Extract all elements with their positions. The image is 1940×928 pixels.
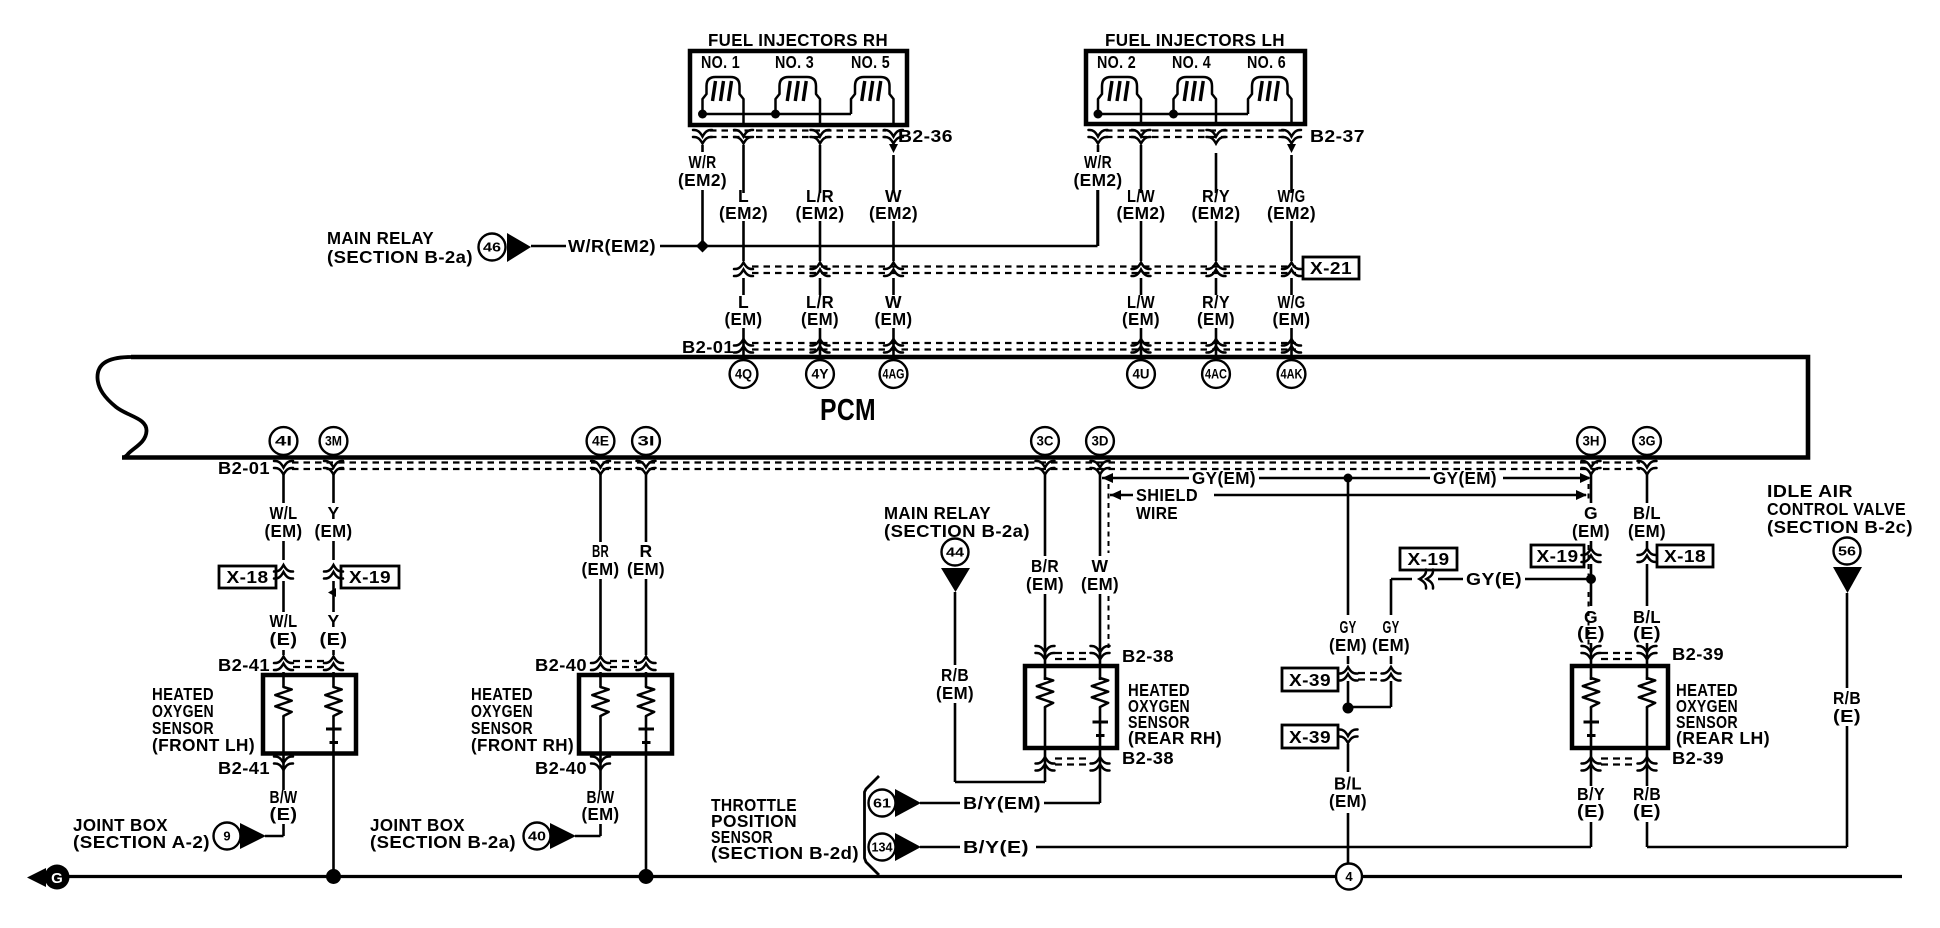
ground bus wire right [1362,875,1902,878]
connector B2-37 pin 1 [1089,130,1108,144]
sensor resistor rear RH [1092,678,1108,707]
PCM pin 3D [1086,427,1114,455]
connector X-21 pin W [884,263,903,277]
wire W/G (EM2) [1290,155,1293,193]
connector B2-38 top pin B/R [1036,646,1055,660]
injector coil NO.2 [1098,77,1141,124]
PCM pin 4U [1127,360,1155,388]
connector X-39 upper pin GY right [1382,667,1401,681]
svg-text:IDLE AIR: IDLE AIR [1767,481,1853,501]
ground symbol G [45,865,70,890]
svg-text:(REAR RH): (REAR RH) [1128,728,1222,748]
svg-text:B2-36: B2-36 [898,126,953,146]
connector B2-37 pin 2 [1132,130,1151,144]
connector X-19 on G wire [1582,549,1601,563]
wire into sensor box left [282,672,285,687]
injector coil NO.3 [776,77,821,125]
svg-text:B/L: B/L [1633,503,1661,523]
svg-text:B2-40: B2-40 [535,758,587,778]
wire R/B (E) [1646,748,1649,786]
connector B2-37 arrow tip [1287,144,1296,153]
connector B2-01 top pin 4AK [1282,339,1301,353]
svg-text:GY(EM): GY(EM) [1192,468,1256,488]
wire R/Y (EM2) [1215,153,1218,193]
connector B2-41 top dashed joint [293,660,325,662]
connector B2-41 top pin W/L [274,657,293,671]
wire GY(E) link [1391,578,1412,581]
heater resistor rear RH [1037,678,1053,707]
connector B2-39 bottom pin B/Y [1582,757,1601,771]
sensor resistor front RH [638,687,654,716]
sensor resistor rear LH [1583,678,1599,707]
heater resistor front LH [275,687,291,716]
PCM pin 3M [320,427,348,455]
wire B/R (EM) [1044,473,1047,556]
svg-text:G: G [51,870,63,887]
wire from arrow 9 to B/W [265,835,284,838]
connector B2-36 pin 1 [693,130,712,144]
connector B2-01 bottom pin at x=283.5 [274,461,293,475]
connector B2-01 bottom pin at x=333.5 [324,461,343,475]
svg-text:X-18: X-18 [1664,546,1706,566]
svg-text:(EM): (EM) [1572,521,1610,541]
connector B2-38 top dashed joint [1055,652,1090,654]
svg-text:NO. 6: NO. 6 [1247,52,1286,72]
connector B2-01 bottom pin at x=1647 [1638,461,1657,475]
wire through rear LH box bottom right [1646,707,1649,748]
wire L/R (EM2) [819,145,822,193]
wire BR (EM) [599,473,602,542]
PCM pin 3H [1577,427,1605,455]
PCM pin 4AC [1202,360,1230,388]
svg-text:(E): (E) [1633,623,1661,643]
connector B2-01 top pin 4Y [811,339,830,353]
svg-text:3H: 3H [1583,434,1600,449]
connector B2-01 bottom dashed joint [292,461,1640,463]
heated oxygen sensor (front LH) box [263,675,356,754]
connector B2-39 top dashed joint [1601,652,1637,654]
svg-text:B2-39: B2-39 [1672,644,1724,664]
connector X-18 label box [219,566,276,588]
sensor element bars front RH [639,728,655,731]
wire R/B(E) to valve [1647,846,1847,849]
wire into rear LH box right [1646,643,1649,680]
shield wire pointer line [1110,494,1133,497]
svg-text:(EM): (EM) [265,521,303,541]
wire B/W (E) [282,753,285,790]
LH injector common bus wire [1098,113,1248,116]
wire R/Y (EM) [1215,278,1218,295]
svg-text:W: W [1092,556,1109,576]
svg-text:W/L: W/L [270,611,298,631]
svg-text:B2-41: B2-41 [218,758,270,778]
svg-text:61: 61 [873,796,891,811]
svg-text:(EM2): (EM2) [1074,170,1123,190]
svg-text:NO. 2: NO. 2 [1097,52,1136,72]
svg-text:(SECTION B-2c): (SECTION B-2c) [1767,517,1913,537]
wire into rear LH box left [1590,643,1593,680]
connector B2-37 pin 3 [1207,130,1226,144]
connector chevron on GY(E) [1420,570,1434,589]
injector coil NO.6 [1248,77,1292,124]
connector B2-40 top pin R [637,657,656,671]
terminal circle 46 [479,234,506,261]
connector B2-01 top pin 4AG [884,339,903,353]
svg-text:X-39: X-39 [1289,727,1331,747]
PCM pin 4AG [880,360,908,388]
svg-text:4AG: 4AG [883,367,905,382]
wire through box bottom left [282,716,285,753]
terminal circle 56 [1834,538,1861,565]
svg-text:R: R [639,541,652,561]
PCM pin 4Q [730,360,758,388]
wire W (EM) [892,278,895,295]
svg-text:(EM2): (EM2) [719,203,768,223]
injector coil NO.5 [851,77,894,125]
PCM pin 4E [587,427,615,455]
svg-text:GY(EM): GY(EM) [1433,468,1497,488]
PCM pin 3G [1633,427,1661,455]
wire L/R (EM) [819,278,822,295]
svg-text:R/B: R/B [1833,688,1861,708]
connector B2-37 pin 4 [1282,130,1301,144]
svg-text:(EM): (EM) [582,804,620,824]
connector B2-36 arrow tip [889,144,898,153]
node GY branches junction [1343,703,1354,714]
svg-text:(EM): (EM) [936,683,974,703]
connector X-21 pin L/W [1132,263,1151,277]
svg-text:X-19: X-19 [349,567,391,587]
heater resistor rear LH [1639,678,1655,707]
connector B2-01 top pin 4AC [1207,339,1226,353]
connector B2-38 top pin W [1091,646,1110,660]
svg-text:(SECTION B-2d): (SECTION B-2d) [711,843,859,863]
node GY(E) at G wire [1586,574,1596,584]
svg-text:BR: BR [592,541,609,561]
arrow joint box B-2a [550,823,576,849]
svg-text:NO. 4: NO. 4 [1172,52,1211,72]
wire GY (EM) right branch [1390,579,1393,615]
svg-text:X-39: X-39 [1289,670,1331,690]
svg-text:B2-01: B2-01 [682,337,734,357]
wire L (EM2) [742,145,745,193]
connector B2-36 pin 3 [811,130,830,144]
svg-text:B/Y(E): B/Y(E) [963,837,1029,857]
wire Y (EM) [332,473,335,503]
svg-text:Y: Y [327,611,339,631]
svg-text:(FRONT LH): (FRONT LH) [152,735,255,755]
sensor resistor front LH [325,687,341,716]
wire through rear LH box bottom left [1590,707,1593,748]
svg-text:44: 44 [946,545,965,560]
svg-text:3D: 3D [1092,434,1109,449]
svg-text:4AC: 4AC [1205,367,1227,382]
wire W (EM2) [892,155,895,193]
wire Y to ground bus [332,753,335,877]
node NO.4 common junction [1169,110,1178,119]
svg-text:(E): (E) [270,804,298,824]
junction marker on Y wire [328,588,336,597]
svg-text:(EM): (EM) [875,309,913,329]
connector B2-36 pin 4 [884,130,903,144]
wire W down to B/Y(EM) [1099,748,1102,803]
svg-text:FUEL INJECTORS LH: FUEL INJECTORS LH [1105,30,1285,50]
connector X-39 upper dashed joint [1358,672,1382,674]
svg-text:4Y: 4Y [812,367,829,382]
svg-text:(REAR LH): (REAR LH) [1676,728,1770,748]
connector X-21 label box [1303,257,1359,279]
wire W/G (EM) [1290,278,1293,295]
terminal circle 61 [869,790,896,817]
connector B2-01 bottom pin at x=646 [637,461,656,475]
svg-text:FUEL INJECTORS RH: FUEL INJECTORS RH [708,30,888,50]
heated oxygen sensor (rear RH) box [1025,666,1117,748]
svg-text:134: 134 [872,840,894,855]
node R wire at ground bus [639,869,654,884]
terminal circle 40 [524,823,551,850]
throttle position sensor brace [865,776,880,875]
wire B/Y (E) [1590,748,1593,786]
wire R/B to B/R corner [955,781,1045,784]
connector X-19 label box right [1531,545,1584,567]
wire B/W (EM) [599,753,602,790]
wire into front RH box left [599,672,602,687]
svg-text:NO. 1: NO. 1 [701,52,740,72]
svg-text:NO. 3: NO. 3 [775,52,814,72]
wire Y (E) [332,581,335,612]
svg-text:(SECTION A-2): (SECTION A-2) [73,832,210,852]
svg-text:(E): (E) [1833,706,1861,726]
wire GY(EM) link [1102,477,1189,480]
wire GY (EM) left branch [1347,478,1350,615]
connector B2-41 top pin Y [324,657,343,671]
shield dashed line at 3H [1588,484,1590,502]
connector B2-38 bottom pin W [1091,757,1110,771]
wire through front RH box bottom right [645,716,648,753]
arrow 61 [895,789,921,817]
wire B/L (E) [1646,564,1649,606]
connector B2-37 dashed joint [1106,129,1284,131]
svg-text:3C: 3C [1037,434,1054,449]
connector X-21 dashed joint [752,265,1296,267]
arrow 134 [895,833,921,861]
svg-text:GY: GY [1340,617,1357,637]
svg-text:46: 46 [483,240,501,255]
connector B2-36 pin 2 [734,130,753,144]
svg-text:(E): (E) [1577,801,1605,821]
wire into rear RH box left [1044,650,1047,680]
connector B2-41 bottom pin [274,756,293,770]
svg-text:(E): (E) [1577,623,1605,643]
svg-text:4I: 4I [275,434,292,449]
shield dashed line at 3D [1108,484,1110,553]
arrowhead GY(EM) right [1580,473,1591,483]
connector X-18 label box right [1657,545,1713,567]
svg-text:B/Y(EM): B/Y(EM) [963,793,1041,813]
svg-text:(EM): (EM) [1081,574,1119,594]
sensor element bars rear RH [1093,721,1109,724]
wire B/Y(E) link [920,846,960,849]
svg-text:(EM): (EM) [1026,574,1064,594]
wire B/Y(EM) link [920,802,960,805]
svg-text:(SECTION B-2a): (SECTION B-2a) [370,832,516,852]
wire R/B (EM) [954,592,957,665]
sensor element bars rear LH [1584,721,1600,724]
svg-text:MAIN RELAY: MAIN RELAY [884,503,991,523]
connector B2-40 top dashed joint [610,660,637,662]
connector B2-01 top pin 4Q [734,339,753,353]
svg-text:(EM): (EM) [801,309,839,329]
arrow main relay 44 [941,568,970,592]
fuel injectors RH box [690,51,907,125]
svg-text:MAIN RELAY: MAIN RELAY [327,228,434,248]
svg-text:40: 40 [528,829,546,844]
arrowhead GY(EM) left [1102,473,1113,483]
connector B2-01 bottom pin at x=1045 [1036,461,1055,475]
svg-text:(EM): (EM) [1273,309,1311,329]
svg-text:B/R: B/R [1031,556,1059,576]
svg-text:W/R(EM2): W/R(EM2) [568,236,656,256]
svg-text:(EM2): (EM2) [1117,203,1166,223]
svg-text:B2-37: B2-37 [1310,126,1365,146]
svg-text:4AK: 4AK [1281,367,1303,382]
svg-text:W/R: W/R [1084,152,1112,172]
node NO.3 common junction [771,110,780,119]
arrow from main relay [507,233,531,262]
wire into front RH box right [645,672,648,687]
svg-text:(EM): (EM) [725,309,763,329]
wire R to ground bus [645,753,648,877]
svg-text:(EM2): (EM2) [796,203,845,223]
wire L/W (EM2) [1140,145,1143,193]
svg-text:(FRONT RH): (FRONT RH) [471,735,574,755]
svg-text:(E): (E) [1633,801,1661,821]
svg-text:4E: 4E [592,434,609,449]
wire W/R corner to LH injectors [1096,190,1099,246]
svg-text:(EM): (EM) [1628,521,1666,541]
connector X-39 upper pin GY left [1339,667,1358,681]
wire through box bottom right [332,716,335,753]
sensor element bars front LH [326,728,342,731]
wire B/L (EM) [1347,744,1350,772]
svg-text:(E): (E) [270,629,298,649]
wire B/L (EM) 3G [1646,473,1649,503]
arrowhead shield left [1110,490,1121,500]
PCM pin 4I [270,427,298,455]
svg-text:W/L: W/L [270,503,298,523]
connector X-21 pin L [734,263,753,277]
svg-text:(EM): (EM) [1329,791,1367,811]
connector X-19 on Y wire [324,565,343,579]
wire W/R (EM2) RH vertical [701,145,704,152]
connector B2-01 bottom pin at x=1591 [1582,461,1601,475]
injector coil NO.4 [1174,77,1217,124]
arrow idle air valve [1833,567,1862,593]
node W/R junction diamond [696,240,709,253]
RH injector common bus wire [703,113,852,116]
connector X-39 lower label box [1282,725,1338,748]
ground bus wire left [69,875,1336,878]
connector X-19 label box [341,566,399,588]
injector coil NO.1 [703,77,744,125]
connector X-21 pin W/G [1282,263,1301,277]
terminal circle 44 [942,539,969,566]
svg-text:B2-39: B2-39 [1672,748,1724,768]
svg-text:(SECTION B-2a): (SECTION B-2a) [327,247,473,267]
svg-text:R/B: R/B [941,665,969,685]
svg-text:3I: 3I [638,434,655,449]
connector B2-38 bottom pin B/R [1036,757,1055,771]
PCM box outline [122,357,1808,458]
svg-text:(EM2): (EM2) [678,170,727,190]
wire into rear RH box right [1099,650,1102,680]
svg-text:X-21: X-21 [1310,258,1352,278]
connector X-18 on B/L wire [1638,549,1657,563]
connector B2-39 top pin B/L [1638,646,1657,660]
wire through rear RH box bottom right [1099,707,1102,748]
wire W/L (EM) [282,473,285,503]
svg-text:9: 9 [223,829,230,844]
svg-text:B2-40: B2-40 [535,655,587,675]
heated oxygen sensor (front RH) box [579,675,672,754]
heater resistor front RH [592,687,608,716]
svg-text:GY: GY [1383,617,1400,637]
connector B2-01 top dashed joint [752,342,1296,344]
terminal circle 134 [869,834,896,861]
svg-text:GY(E): GY(E) [1466,569,1522,589]
wire R (EM) [645,473,648,542]
svg-text:(EM2): (EM2) [1192,203,1241,223]
connector B2-39 bottom dashed joint [1601,757,1637,759]
svg-text:(E): (E) [320,629,348,649]
svg-text:4Q: 4Q [735,367,752,382]
connector B2-40 bottom pin [591,756,610,770]
node NO.2 common junction [1094,110,1103,119]
wire L (EM) [742,278,745,295]
node GY junction [1344,474,1353,483]
svg-text:Y: Y [327,503,339,523]
wire G (E) [1590,564,1593,606]
connector X-39 upper label box [1282,668,1338,691]
wire W/R (EM2) LH vertical [1097,145,1100,152]
fuel injectors LH box [1086,51,1305,124]
PCM pin 3I [632,427,660,455]
svg-text:(EM2): (EM2) [1267,203,1316,223]
svg-text:3G: 3G [1639,434,1656,449]
svg-text:SHIELD: SHIELD [1136,485,1198,505]
svg-text:B2-01: B2-01 [218,458,270,478]
svg-text:X-18: X-18 [227,567,269,587]
connector X-39 lower pin [1339,729,1358,743]
wire through rear RH box bottom left [1044,707,1047,748]
connector B2-38 bottom dashed joint [1055,757,1090,759]
svg-text:X-19: X-19 [1537,546,1579,566]
svg-text:(EM2): (EM2) [869,203,918,223]
svg-text:B2-41: B2-41 [218,655,270,675]
connector B2-01 bottom pin at x=1100 [1091,461,1110,475]
svg-text:(EM): (EM) [1372,635,1410,655]
wire W (EM) shielded [1099,473,1102,556]
node Y wire at ground bus [326,869,341,884]
svg-text:WIRE: WIRE [1136,503,1178,523]
svg-text:(EM): (EM) [582,559,620,579]
connector B2-40 top pin BR [591,657,610,671]
connector B2-01 bottom pin at x=600.5 [591,461,610,475]
connector X-21 pin L/R [811,263,830,277]
svg-text:(EM): (EM) [1197,309,1235,329]
arrow joint box A-2 [240,823,266,849]
svg-text:4: 4 [1345,869,1353,884]
